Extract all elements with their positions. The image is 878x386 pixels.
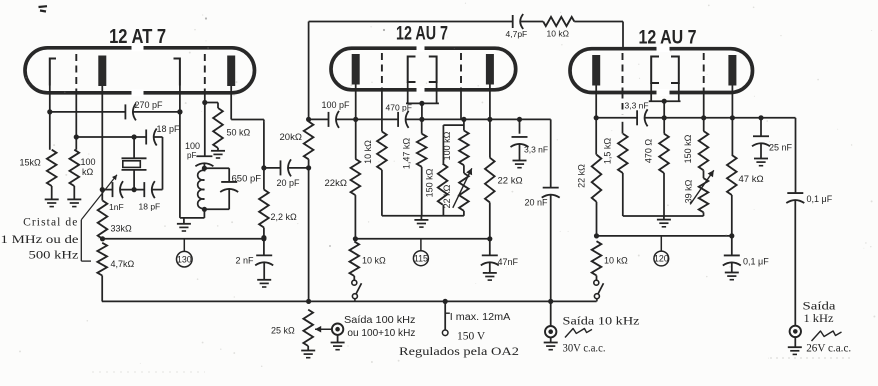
svg-text:100 pF: 100 pF — [322, 100, 351, 110]
svg-text:pF: pF — [187, 151, 196, 160]
svg-text:650 pF: 650 pF — [232, 174, 262, 185]
svg-text:150 V: 150 V — [457, 331, 486, 343]
svg-text:10 kΩ: 10 kΩ — [604, 256, 628, 266]
svg-text:4,7kΩ: 4,7kΩ — [111, 259, 135, 269]
svg-text:270 pF: 270 pF — [135, 100, 164, 110]
svg-text:150 kΩ: 150 kΩ — [683, 134, 693, 163]
svg-text:39 kΩ: 39 kΩ — [684, 179, 694, 203]
svg-text:12 AU 7: 12 AU 7 — [639, 28, 697, 49]
svg-text:Saída 10 kHz: Saída 10 kHz — [563, 316, 640, 328]
svg-text:3,3 nF: 3,3 nF — [625, 101, 649, 111]
svg-text:18 pF: 18 pF — [157, 124, 181, 134]
svg-text:12 AT 7: 12 AT 7 — [109, 26, 166, 48]
svg-text:Saída 100 kHz: Saída 100 kHz — [344, 314, 416, 326]
svg-text:20 pF: 20 pF — [277, 178, 301, 188]
svg-text:1 kHz: 1 kHz — [804, 313, 834, 325]
svg-text:500 kHz: 500 kHz — [29, 250, 79, 262]
svg-text:100: 100 — [185, 141, 200, 151]
svg-text:I max. 12mA: I max. 12mA — [450, 312, 511, 323]
svg-text:2 nF: 2 nF — [236, 256, 255, 266]
svg-text:Cristal de: Cristal de — [23, 217, 78, 229]
svg-text:30V c.a.c.: 30V c.a.c. — [563, 343, 606, 355]
svg-text:26V c.a.c.: 26V c.a.c. — [806, 343, 851, 355]
svg-text:100 kΩ: 100 kΩ — [442, 131, 452, 160]
svg-text:1 MHz ou de: 1 MHz ou de — [1, 234, 79, 246]
svg-text:3,3 nF: 3,3 nF — [524, 145, 548, 155]
svg-text:2,2 kΩ: 2,2 kΩ — [271, 212, 298, 222]
svg-text:Saída: Saída — [803, 301, 836, 313]
svg-text:50 kΩ: 50 kΩ — [227, 128, 251, 138]
svg-text:10 kΩ: 10 kΩ — [363, 140, 373, 164]
svg-text:18 pF: 18 pF — [139, 202, 161, 212]
svg-text:ou 100+10 kHz: ou 100+10 kHz — [347, 327, 415, 339]
svg-text:20 nF: 20 nF — [525, 198, 549, 208]
svg-text:10 kΩ: 10 kΩ — [362, 256, 386, 266]
svg-text:47nF: 47nF — [498, 257, 519, 267]
svg-text:1nF: 1nF — [109, 202, 124, 212]
svg-text:25 nF: 25 nF — [769, 143, 793, 153]
svg-text:Regulados pela OA2: Regulados pela OA2 — [399, 346, 519, 358]
svg-text:25 kΩ: 25 kΩ — [271, 326, 295, 336]
svg-text:470 pF: 470 pF — [386, 103, 412, 113]
svg-text:1,47 kΩ: 1,47 kΩ — [402, 138, 412, 170]
svg-text:47 kΩ: 47 kΩ — [739, 174, 764, 185]
svg-text:150 kΩ: 150 kΩ — [425, 168, 435, 197]
svg-text:470 Ω: 470 Ω — [644, 139, 654, 164]
svg-text:22 kΩ: 22 kΩ — [577, 164, 587, 188]
svg-text:115: 115 — [414, 253, 428, 263]
svg-text:130: 130 — [177, 254, 192, 264]
svg-text:4,7pF: 4,7pF — [506, 29, 528, 39]
svg-text:22kΩ: 22kΩ — [325, 178, 347, 189]
svg-text:kΩ: kΩ — [82, 167, 94, 177]
svg-text:22 kΩ: 22 kΩ — [442, 184, 452, 208]
svg-text:100: 100 — [81, 157, 96, 167]
svg-text:10 kΩ: 10 kΩ — [547, 29, 569, 39]
svg-text:33kΩ: 33kΩ — [111, 224, 133, 234]
svg-text:1,5 kΩ: 1,5 kΩ — [603, 138, 613, 165]
svg-text:0,1 μF: 0,1 μF — [807, 194, 833, 204]
svg-text:0,1 μF: 0,1 μF — [743, 257, 769, 267]
svg-text:120: 120 — [654, 254, 669, 264]
svg-text:12 AU 7: 12 AU 7 — [396, 24, 448, 45]
svg-text:20kΩ: 20kΩ — [280, 132, 302, 143]
svg-text:15kΩ: 15kΩ — [20, 158, 42, 168]
